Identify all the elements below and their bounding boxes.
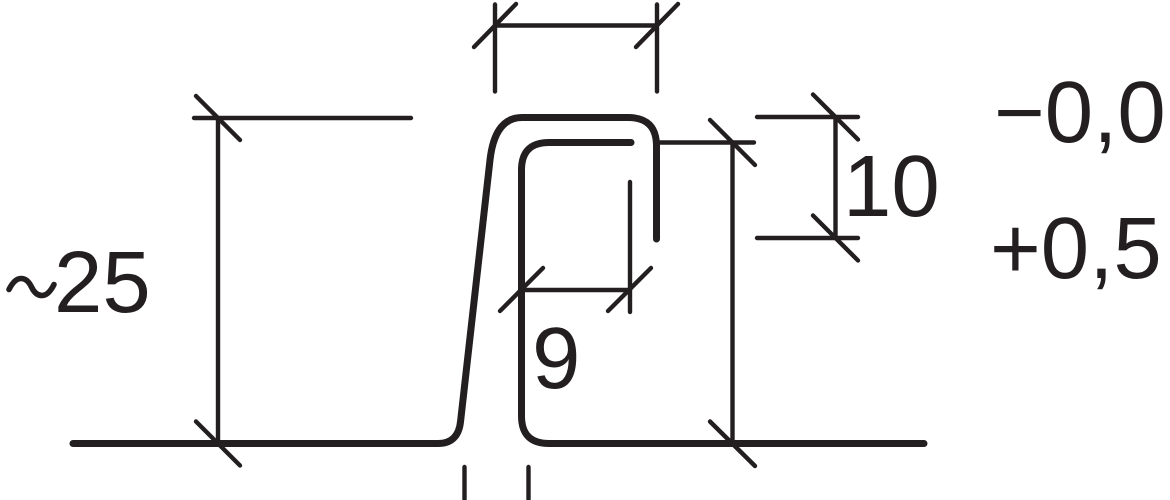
svg-text:+0,5: +0,5 (990, 200, 1162, 297)
right tall dimension: bottom tick (710, 422, 755, 467)
left dimension ~25: dimension line (216, 118, 220, 444)
right tall dimension: top extension line (660, 140, 754, 144)
top dimension: left extension line (493, 5, 497, 92)
top dimension: right tick (636, 4, 678, 47)
label ~25 (tilde lowered to match reference) (9, 279, 54, 296)
left dimension ~25: bottom tick (196, 422, 240, 466)
dimension 9: right tick (608, 268, 651, 311)
lower dimension: left extension line (cropped) (462, 467, 466, 500)
svg-text:10: 10 (843, 138, 940, 235)
svg-text:9: 9 (532, 310, 580, 407)
inner sheet profile (baseline right + vertical upstand + top hook) (522, 143, 925, 444)
dimension 10: bottom tick (813, 216, 858, 261)
dimension 9: right extension line (628, 182, 632, 312)
top dimension line (495, 23, 657, 27)
outer sheet profile (baseline left + slanted upstand + top fold + right leg) (73, 118, 657, 444)
right tall dimension: top tick (710, 120, 755, 165)
svg-text:−0,0: −0,0 (994, 64, 1166, 161)
dimension 9: dimension line (522, 288, 631, 292)
dimension 10: dimension line (833, 117, 837, 238)
svg-text:25: 25 (54, 234, 151, 331)
top dimension: left tick (474, 4, 516, 47)
dimension 10: top tick (813, 95, 858, 140)
top dimension: right extension line (655, 5, 659, 92)
dimension 10: bottom extension line (757, 236, 858, 240)
left dimension ~25: top tick (196, 96, 240, 140)
right tall dimension: dimension line (730, 143, 734, 444)
dimension 9: left tick (500, 268, 543, 311)
lower dimension: right extension line (cropped) (526, 467, 530, 500)
dimension 10: top extension line (757, 115, 858, 119)
left dimension ~25: top extension line (194, 116, 411, 120)
